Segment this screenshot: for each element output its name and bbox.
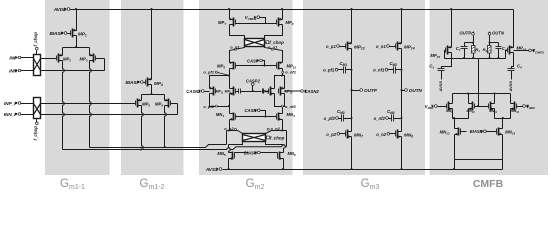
svg-text:CASN2: CASN2 bbox=[305, 89, 320, 94]
svg-text:o_nf2: o_nf2 bbox=[374, 116, 386, 121]
svg-text:OUTN: OUTN bbox=[492, 31, 505, 36]
svg-text:o_n2: o_n2 bbox=[376, 132, 386, 137]
svg-text:AVSS: AVSS bbox=[438, 81, 443, 93]
svg-text:INP: INP bbox=[9, 55, 18, 60]
svg-text:BIASP: BIASP bbox=[125, 80, 140, 85]
svg-text:o_nf1: o_nf1 bbox=[373, 68, 385, 73]
svg-text:AVSS: AVSS bbox=[508, 81, 513, 93]
svg-text:o_pf1: o_pf1 bbox=[203, 70, 214, 75]
svg-text:INN_F: INN_F bbox=[4, 112, 17, 117]
svg-text:BIASP: BIASP bbox=[49, 31, 64, 36]
svg-text:OUTP: OUTP bbox=[459, 31, 471, 36]
svg-text:f_chop: f_chop bbox=[270, 135, 285, 140]
svg-text:o_nf2: o_nf2 bbox=[285, 104, 296, 109]
svg-text:o_n1: o_n1 bbox=[268, 44, 278, 49]
svg-text:OUTP: OUTP bbox=[364, 88, 378, 93]
svg-text:CASN: CASN bbox=[245, 108, 258, 113]
svg-text:o_nf1: o_nf1 bbox=[285, 70, 296, 75]
svg-text:BIASN: BIASN bbox=[470, 129, 484, 134]
svg-text:f_chop: f_chop bbox=[33, 126, 38, 141]
svg-text:f_chop: f_chop bbox=[33, 32, 38, 47]
svg-text:CASP2: CASP2 bbox=[246, 78, 261, 83]
svg-text:o_p2: o_p2 bbox=[326, 132, 336, 137]
svg-text:INP_F: INP_F bbox=[4, 101, 17, 106]
svg-text:o_n1: o_n1 bbox=[376, 44, 386, 49]
svg-text:INN: INN bbox=[9, 68, 18, 73]
svg-text:o_p1: o_p1 bbox=[326, 44, 336, 49]
svg-text:o_pf2: o_pf2 bbox=[324, 116, 336, 121]
svg-text:CMFB: CMFB bbox=[473, 178, 504, 190]
svg-text:o_p1: o_p1 bbox=[230, 44, 240, 49]
svg-text:o_pf2: o_pf2 bbox=[203, 104, 214, 109]
svg-text:CASP: CASP bbox=[247, 58, 259, 63]
svg-text:o_pf1: o_pf1 bbox=[323, 68, 335, 73]
svg-text:CASN2: CASN2 bbox=[186, 89, 201, 94]
svg-text:AVSS: AVSS bbox=[205, 167, 219, 172]
svg-text:OUTN: OUTN bbox=[409, 88, 423, 93]
